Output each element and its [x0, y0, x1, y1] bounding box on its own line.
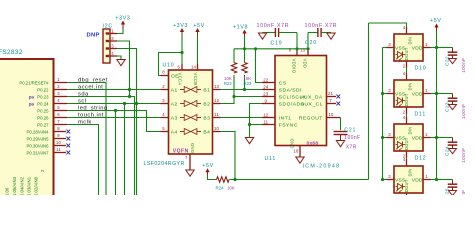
svg-text:R24: R24 [216, 185, 224, 190]
svg-text:D12: D12 [415, 155, 427, 161]
svg-text:A3: A3 [171, 115, 178, 121]
svg-text:P0.21/RESET#: P0.21/RESET# [19, 80, 49, 85]
wire D12 DOUT to next DIN [406, 158, 408, 159]
capacitor C25 100nF [437, 179, 453, 181]
svg-text:11: 11 [56, 147, 61, 152]
wire mclk [67, 125, 99, 197]
ground at C21 [336, 141, 344, 147]
connector J1 pin 4 [106, 55, 110, 57]
U10 pin B4 [213, 131, 221, 133]
wire +1V8 arrow to rail [244, 36, 246, 49]
svg-text:P0.31/AIN7: P0.31/AIN7 [27, 150, 50, 155]
power +5V at R24 [205, 168, 209, 172]
capacitor C19 100nF [263, 32, 276, 34]
svg-text:AUX_CL: AUX_CL [301, 101, 323, 107]
svg-text:P0.24: P0.24 [37, 101, 49, 106]
U10 pin A1 [161, 89, 169, 91]
LED D13 symbol [396, 186, 398, 188]
no-connect X on MCU pin 11 [66, 151, 70, 155]
LED D11 symbol [396, 100, 398, 102]
svg-text:+1V8: +1V8 [233, 24, 248, 30]
LED D11 pin 1 VDD [423, 93, 431, 95]
MCU pin 1 P0.21/RESET# [54, 82, 68, 84]
MCU pin 8 P0.28/AIN4 [54, 131, 67, 133]
MCU U1 nRF52832 body [0, 59, 54, 199]
junction on sda row [128, 95, 131, 98]
svg-text:VDD: VDD [412, 177, 423, 183]
capacitor C21 100nF on REGOUT [340, 118, 342, 131]
LED D10 pin 2 DOUT [406, 61, 408, 68]
wire sda [67, 97, 135, 197]
svg-text:P0.30/AIN6: P0.30/AIN6 [27, 143, 50, 148]
svg-text:DIN: DIN [407, 83, 412, 91]
capacitor C20 100nF [308, 32, 318, 34]
junction led_string / down column [114, 109, 117, 112]
LED D12 symbol [396, 144, 398, 146]
svg-text:B2: B2 [203, 101, 210, 107]
junction VSS D11 [381, 92, 384, 95]
junction on scl row [135, 102, 138, 105]
capacitor C22 100nF [437, 47, 453, 49]
junction B4/R24 [233, 178, 236, 181]
level shifter U10 body [169, 70, 213, 154]
wire +1V8 rail [234, 48, 308, 50]
ground at C20 [327, 33, 335, 39]
no-connect X on MCU pin 10 [66, 144, 70, 148]
svg-text:VCCA: VCCA [178, 73, 183, 86]
U10 pin B3 [213, 117, 221, 119]
svg-text:P0.04/AIN2: P0.04/AIN2 [20, 176, 25, 195]
svg-text:ICM-20948: ICM-20948 [303, 164, 341, 170]
LED D13 pin 2 DOUT [406, 193, 408, 196]
wire accel.int to U10 A1 [67, 89, 161, 91]
wire D13 VDD to +5V rail [431, 179, 437, 181]
svg-text:X7R: X7R [346, 144, 357, 150]
ground at U10 [186, 170, 194, 176]
U11 pin 7 AUX_CL [327, 103, 337, 105]
junction SDO/FSYNC [248, 123, 251, 126]
svg-text:D11: D11 [415, 111, 427, 117]
svg-text:C20: C20 [305, 40, 317, 46]
U11 pin 12 INT1 [262, 117, 275, 119]
MCU pin 6 P0.26 [54, 117, 68, 119]
U10 channel 1 symbol [180, 89, 185, 91]
ground at C23 [449, 105, 457, 110]
wire D10 VDD to +5V rail [431, 47, 437, 49]
U11 pin 10 REGOUT [327, 117, 341, 119]
svg-text:VDD: VDD [412, 135, 423, 141]
U10 pin A2 [161, 103, 169, 105]
wire D12 VDD to +5V rail [431, 137, 437, 139]
svg-text:P0.23: P0.23 [37, 94, 49, 99]
junction CS on +1V8 rail [254, 47, 257, 50]
svg-text:SDA/SDI: SDA/SDI [279, 87, 302, 93]
no-connect X on MCU pin 9 [66, 137, 70, 141]
U11 pin 24 SDA/SDI [262, 89, 275, 91]
wire R24 to led chain line [230, 179, 236, 181]
svg-text:P0.27: P0.27 [37, 122, 49, 127]
svg-text:A4: A4 [171, 129, 178, 135]
U10 pin 8 OE [161, 75, 169, 77]
svg-text:R23: R23 [244, 81, 252, 86]
svg-text:P0.28/AIN4: P0.28/AIN4 [27, 129, 50, 134]
U11 pin 22 CS [262, 82, 275, 84]
svg-text:+3V3: +3V3 [115, 15, 130, 21]
wire led data left rail [368, 23, 370, 180]
junction R22 on scl-B2 row [232, 95, 235, 98]
svg-text:B1: B1 [203, 87, 210, 93]
svg-text:U11: U11 [265, 156, 277, 162]
MCU pin 11 P0.31/AIN7 [54, 152, 67, 154]
svg-text:10: 10 [214, 126, 219, 131]
svg-text:12: 12 [263, 112, 268, 117]
connector J1 pin 3 [106, 47, 110, 49]
junction on accel.int row [128, 88, 131, 91]
svg-text:DIN: DIN [407, 169, 412, 177]
svg-text:22: 22 [263, 77, 268, 82]
ground at C22 [449, 59, 457, 64]
svg-text:100nF: 100nF [461, 190, 467, 195]
junction +3V3/OE branch [180, 51, 183, 54]
U10 pin 7 GND stub [189, 154, 191, 170]
connector J1 pin 2 [106, 40, 110, 42]
resistor R23 10K [244, 49, 246, 63]
resistor R22 10K [233, 49, 235, 63]
power +3V3 at connector [121, 21, 125, 25]
LED D10 pin 4 DIN [406, 27, 408, 34]
wire U11 CS pullup to +1V8 [256, 49, 263, 83]
LED D12 pin 4 DIN [406, 117, 408, 124]
svg-text:C24: C24 [445, 146, 451, 156]
svg-text:C23: C23 [445, 102, 451, 112]
wire +3V3 branch to OE [159, 53, 183, 76]
wire U10 B2 to U11 SCL [221, 97, 263, 104]
no-connect X on AUX_DA [336, 95, 340, 99]
LED D10 pin 1 VDD [423, 47, 431, 49]
power +5V at led rail [434, 24, 438, 28]
IMU U11 body [275, 56, 327, 146]
svg-text:+5V: +5V [430, 18, 442, 24]
wire U11 FSYNC to ground [250, 124, 263, 126]
svg-text:VDD: VDD [303, 59, 308, 69]
wire D13 VSS corner [383, 179, 387, 181]
resistor R24 10K [217, 177, 230, 182]
svg-text:pa: pa [29, 94, 35, 99]
svg-text:P0.29/AIN5: P0.29/AIN5 [27, 136, 50, 141]
U10 pin A3 [161, 117, 169, 119]
U11 pin 18 GND [299, 146, 301, 158]
wire J1 pin1 to +3V3 [117, 28, 123, 34]
ground at connector [117, 60, 125, 66]
ground at FSYNC [245, 138, 253, 144]
wire D10 VSS to rail [383, 47, 387, 49]
junction R23 on sda-B1 row [243, 88, 246, 91]
junction scl / down column [123, 102, 126, 105]
MCU pin 2 P0.22 [54, 89, 68, 91]
wire VDD to rail [307, 33, 309, 51]
U11 pin 11 FSYNC [262, 124, 275, 126]
svg-text:+3V3: +3V3 [173, 23, 188, 29]
svg-text:100nF: 100nF [461, 104, 467, 119]
LED D10 pin 3 VSS [387, 47, 395, 49]
no-connect X on MCU pin 8 [66, 130, 70, 134]
ground at C19 [258, 33, 266, 39]
svg-text:P0.03/AIN1: P0.03/AIN1 [27, 176, 32, 195]
svg-text:18: 18 [294, 148, 299, 153]
svg-text:C21: C21 [344, 127, 356, 133]
wire +5V led rail [436, 31, 438, 180]
junction +5V rail at D12 [435, 136, 438, 139]
svg-text:23: 23 [263, 91, 268, 96]
svg-text:100nF X7R: 100nF X7R [305, 23, 338, 29]
U10 pin A4 [161, 131, 169, 133]
wire U10 B1 to U11 SDA [221, 89, 263, 91]
wire scl to U10 A2 [67, 103, 161, 105]
wire dbg_reset [67, 83, 106, 197]
wire touch.int to U10 A3 [67, 117, 161, 119]
svg-text:REGOUT: REGOUT [299, 115, 323, 121]
junction +5V rail at D13 [435, 178, 438, 181]
LED D13 body [394, 166, 423, 193]
svg-text:VDD: VDD [412, 45, 423, 51]
svg-text:DIN: DIN [407, 127, 412, 135]
LED D12 pin 1 VDD [423, 137, 431, 139]
wire +5V to R24 [208, 175, 217, 180]
svg-text:100nF: 100nF [461, 148, 467, 163]
wire J1 pin2 down to sda [117, 41, 130, 97]
no-connect X on AUX_CL [336, 102, 340, 106]
LED D12 pin 3 VSS [387, 137, 395, 139]
wire +5V to VCCB [197, 35, 199, 64]
LED D11 pin 3 VSS [387, 93, 395, 95]
svg-text:21: 21 [328, 91, 333, 96]
svg-text:P0.02/AIN0: P0.02/AIN0 [34, 176, 39, 195]
svg-text:24: 24 [263, 84, 268, 89]
svg-text:DIN: DIN [407, 37, 412, 45]
MCU pin 7 P0.27 [54, 124, 68, 126]
svg-text:A2: A2 [171, 101, 178, 107]
svg-text:INT1: INT1 [279, 115, 292, 121]
svg-text:GND: GND [190, 143, 195, 153]
wire U11 SDO to ground [250, 104, 263, 138]
capacitor C24 100nF [437, 137, 453, 139]
U10 pin 14 VCCB stub [197, 64, 199, 70]
junction VDD rail [306, 47, 309, 50]
svg-text:DNP: DNP [87, 33, 100, 39]
wire U10 B4 to led chain [221, 132, 236, 180]
LED D11 body [394, 80, 423, 107]
wire bottom led data line to led rail [235, 179, 369, 181]
U11 pin 13 VDD [307, 50, 309, 56]
junction VDDIO rail [295, 47, 298, 50]
LED D12 body [394, 124, 423, 151]
U11 pin 9 SDO/ADO [262, 103, 275, 105]
svg-text:13: 13 [300, 48, 305, 53]
wire D12 VSS to rail [383, 137, 387, 139]
svg-text:P0.26: P0.26 [37, 115, 49, 120]
svg-text:CS: CS [279, 80, 287, 86]
MCU pin 3 P0.23 [54, 96, 68, 98]
power +1V8 [242, 30, 246, 34]
wire D11 DOUT to next DIN [406, 114, 408, 117]
svg-text:AUX_DA: AUX_DA [300, 94, 323, 100]
wire J1 pin4 to ground [117, 56, 121, 60]
svg-text:0x68: 0x68 [307, 140, 319, 146]
U11 pin 23 SCL/SCLK [262, 96, 275, 98]
U10 pin B2 [213, 103, 221, 105]
svg-text:10: 10 [56, 140, 61, 145]
LED D11 pin 4 DIN [406, 73, 408, 80]
svg-text:13: 13 [214, 84, 219, 89]
svg-text:VDD: VDD [412, 91, 423, 97]
svg-text:11: 11 [214, 112, 219, 117]
svg-text:D10: D10 [415, 65, 427, 71]
power +3V3 at U10 VCCA [180, 28, 184, 32]
svg-text:10: 10 [329, 112, 334, 117]
wire scl branch down [124, 104, 126, 197]
U10 channel 3 symbol [180, 117, 185, 119]
junction VSS bottom [381, 178, 384, 181]
svg-text:VCCB: VCCB [193, 73, 198, 86]
wire D10 DOUT to next DIN [406, 68, 408, 73]
svg-text:VQFN: VQFN [173, 149, 189, 155]
LED D11 pin 2 DOUT [406, 107, 408, 114]
svg-text:U10: U10 [163, 63, 175, 69]
svg-text:B4: B4 [203, 129, 210, 135]
ground at C25 [449, 191, 457, 196]
svg-text:DOUT: DOUT [404, 93, 409, 106]
wire VDDIO to rail [296, 33, 298, 51]
svg-text:11: 11 [263, 119, 268, 124]
svg-text:A1: A1 [171, 87, 178, 93]
svg-text:100nF: 100nF [344, 135, 360, 141]
junction VSS D12 [381, 136, 384, 139]
svg-text:100nF X7R: 100nF X7R [257, 23, 290, 29]
svg-text:DOUT: DOUT [404, 179, 409, 192]
wire VSS left rail [382, 48, 384, 180]
connector J1 pin 1 [106, 32, 110, 34]
svg-text:C19: C19 [271, 40, 283, 46]
U10 channel 4 symbol [180, 131, 185, 133]
svg-text:FSYNC: FSYNC [279, 122, 298, 128]
wire D13 VSS to rail [383, 179, 387, 181]
svg-text:B3: B3 [203, 115, 210, 121]
svg-text:P0.25: P0.25 [37, 108, 49, 113]
capacitor C23 100nF [437, 93, 453, 95]
LED D13 pin 3 VSS [387, 179, 395, 181]
power +5V at U10 VCCB [195, 28, 199, 32]
svg-text:GND: GND [289, 138, 294, 148]
LED D10 body [394, 34, 423, 61]
svg-text:FS2832: FS2832 [0, 49, 23, 56]
wire J1 pin3 down to scl [117, 49, 137, 197]
wire U10 B3 to U11 INT1 [221, 117, 263, 119]
MCU pin 5 P0.25 [54, 110, 68, 112]
svg-text:P0.22: P0.22 [37, 87, 49, 92]
junction +1V8/R23 [243, 47, 246, 50]
svg-text:+5V: +5V [202, 163, 214, 169]
svg-text:+5V: +5V [193, 23, 205, 29]
svg-text:DOUT: DOUT [404, 137, 409, 150]
svg-text:DOUT: DOUT [404, 47, 409, 60]
wire led data entry top [369, 23, 407, 27]
junction +5V rail at D11 [435, 92, 438, 95]
wire led_string to U10 A4 [67, 111, 161, 132]
svg-text:P0.06: P0.06 [5, 187, 10, 195]
ground at U11 GND [296, 157, 304, 163]
junction +5V rail at D10 [435, 46, 438, 49]
svg-text:14: 14 [191, 65, 196, 70]
ground at C24 [449, 149, 457, 154]
svg-text:VDDIO: VDDIO [292, 59, 297, 74]
MCU pin 4 P0.24 [54, 103, 68, 105]
wire D11 VSS to rail [383, 93, 387, 95]
svg-text:10K: 10K [227, 185, 235, 190]
LED D13 pin 1 VDD [423, 179, 431, 181]
svg-text:C22: C22 [445, 56, 451, 66]
LED D13 pin 4 DIN [406, 159, 408, 166]
LED D12 pin 2 DOUT [406, 151, 408, 158]
U10 pin 6 VCCA stub [181, 64, 183, 70]
wire led_string branch down [115, 111, 117, 197]
LED D10 symbol [396, 54, 398, 56]
svg-text:12: 12 [214, 98, 219, 103]
svg-text:R22: R22 [224, 81, 232, 86]
U10 channel 2 symbol [180, 103, 185, 105]
svg-text:P0.05/AIN3: P0.05/AIN3 [12, 176, 17, 195]
svg-text:LSF0204RGYR: LSF0204RGYR [144, 161, 185, 167]
MCU pin 10 P0.30/AIN6 [54, 145, 67, 147]
svg-text:pa: pa [29, 101, 35, 106]
MCU pin 9 P0.29/AIN5 [54, 138, 67, 140]
wire +3V3 to VCCA [181, 35, 183, 64]
wire D11 VDD to +5V rail [431, 93, 437, 95]
U10 pin B1 [213, 89, 221, 91]
svg-text:100nF: 100nF [461, 58, 467, 73]
U11 pin 21 AUX_DA [327, 96, 337, 98]
U11 pin 8 VDDIO [296, 50, 298, 56]
